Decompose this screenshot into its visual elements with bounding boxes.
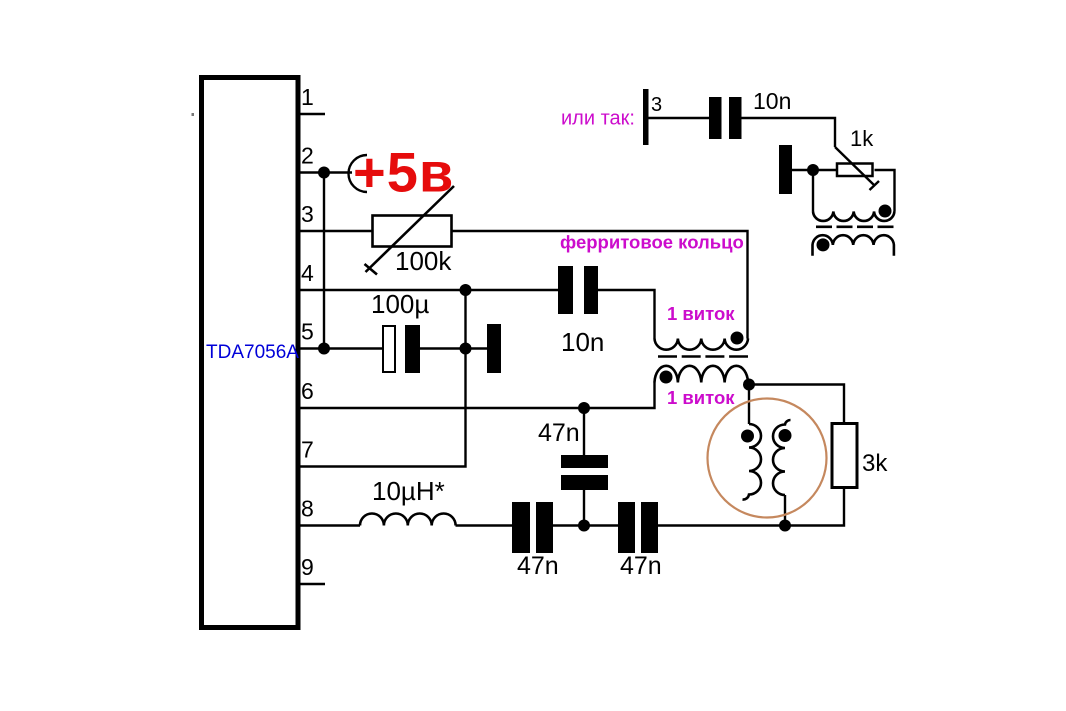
wire C5 to node (553, 524, 618, 526)
svg-text:1: 1 (301, 84, 314, 110)
transformer T3 right winding (773, 420, 790, 495)
svg-text:5: 5 (301, 319, 314, 345)
transformer T3 right polarity dot (779, 429, 792, 442)
capacitor C4 47n plate B (561, 475, 608, 490)
svg-text:6: 6 (301, 378, 314, 404)
svg-text:3: 3 (301, 201, 314, 227)
svg-text:или так:: или так: (561, 108, 635, 130)
wire pin3 to transformer T1 (452, 231, 748, 339)
inductor L1 10uH (360, 514, 456, 526)
wire C8 to R2 (792, 169, 837, 171)
potentiometer R1 wiper arrow (365, 186, 455, 275)
capacitor C3 10n plate A (558, 266, 573, 314)
pin 2 (300, 171, 352, 173)
transformer T3 left polarity dot (741, 430, 754, 443)
wire C7 to R2 wiper (742, 118, 836, 147)
pin 9 (300, 583, 325, 585)
pin 1 (300, 113, 325, 115)
potentiometer R2 wiper arrow (835, 147, 879, 190)
svg-text:2: 2 (301, 143, 314, 169)
node pin5 second junction (460, 343, 472, 355)
wire bottom rail (658, 489, 844, 526)
svg-text:TDA7056A: TDA7056A (206, 342, 299, 363)
capacitor C5 47n plate A (512, 502, 530, 553)
svg-text:ферритовое кольцо: ферритовое кольцо (560, 232, 744, 253)
svg-text:7: 7 (301, 437, 314, 463)
svg-text:100k: 100k (395, 246, 452, 276)
wire T3 right winding to bottom rail (784, 495, 786, 526)
svg-text:47n: 47n (538, 419, 580, 447)
transformer T1 secondary polarity dot (660, 371, 673, 384)
svg-text:1 виток: 1 виток (667, 303, 735, 324)
transformer T2 core (816, 226, 894, 229)
transformer T1 core (658, 355, 748, 358)
transformer T3 left winding (743, 424, 762, 500)
capacitor C7 10n plate A (709, 97, 722, 139)
wire T1 to R3 (748, 385, 844, 423)
wire C1 to junction (420, 347, 487, 349)
node C8 R2 junction (807, 164, 819, 176)
transformer T1 secondary winding (655, 366, 749, 383)
speaker circle (708, 399, 827, 518)
node bottom rail right junction (779, 520, 791, 532)
svg-text:1k: 1k (850, 126, 874, 151)
wire supply bus pins 2-5 (323, 173, 325, 349)
node T1 secondary right junction (743, 379, 755, 391)
resistor R3 3k body (832, 424, 857, 488)
wire node to T2 primary (812, 170, 814, 212)
svg-text:10n: 10n (561, 327, 604, 357)
capacitor C1 100u positive plate (383, 326, 395, 372)
capacitor C2 stub plate (487, 324, 501, 373)
svg-text:9: 9 (301, 554, 314, 580)
svg-text:47n: 47n (620, 552, 662, 580)
op-amp U1 TDA7056A body (202, 78, 299, 628)
capacitor C7 10n plate B (729, 97, 742, 139)
node pin2 junction (318, 167, 330, 179)
svg-text:3: 3 (651, 94, 662, 116)
transformer T1 primary polarity dot (731, 332, 744, 345)
capacitor C8 stub plate (779, 145, 792, 194)
pin 7 wire (300, 290, 466, 467)
svg-text:10µH*: 10µH* (372, 476, 445, 506)
svg-text:100µ: 100µ (371, 289, 429, 319)
supply arc symbol (349, 155, 367, 192)
wire C4 to bottom rail (583, 490, 585, 526)
node bottom rail junction (578, 520, 590, 532)
wire L1 to C5 (456, 524, 513, 526)
svg-text:4: 4 (301, 260, 314, 286)
capacitor C1 100u negative plate (405, 325, 420, 373)
svg-text:+5в: +5в (353, 141, 454, 204)
capacitor C5 47n plate B (536, 502, 553, 553)
node pin6 junction (578, 402, 590, 414)
transformer T2 primary winding (813, 212, 894, 221)
terminal pin 3 bar (643, 89, 649, 145)
wire T1 node down to T3 (748, 385, 750, 425)
svg-text:47n: 47n (517, 552, 559, 580)
svg-text:8: 8 (301, 496, 314, 522)
pin 3 (300, 230, 372, 232)
node pin4 junction (460, 284, 472, 296)
wire C3 to transformer T1 (598, 290, 655, 339)
svg-text:3k: 3k (862, 450, 888, 477)
transformer T1 primary winding (655, 339, 749, 350)
transformer T2 secondary polarity dot (817, 238, 830, 251)
pin 6 wire (300, 383, 655, 409)
wire terminal to C7 (649, 117, 710, 119)
wire pin6 node to C4 (583, 408, 585, 455)
svg-text:1 виток: 1 виток (667, 387, 735, 408)
pin 8 (300, 524, 360, 526)
pin 4 (300, 289, 558, 291)
potentiometer R2 1k body (837, 164, 873, 177)
capacitor C4 47n plate A (561, 455, 608, 468)
speckle (192, 113, 195, 116)
svg-text:10n: 10n (753, 88, 791, 114)
node pin5 junction (318, 343, 330, 355)
potentiometer R1 100k body (373, 216, 452, 247)
transformer T2 primary polarity dot (879, 205, 892, 218)
capacitor C6 47n plate B (641, 502, 658, 553)
pin 5 (300, 347, 382, 349)
wire R2 to T2 (875, 170, 895, 212)
transformer T2 secondary winding (813, 235, 894, 255)
capacitor C6 47n plate A (618, 502, 635, 553)
capacitor C3 10n plate B (584, 266, 598, 314)
